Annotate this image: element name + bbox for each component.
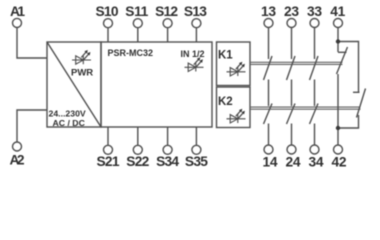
svg-text:S11: S11 (125, 4, 148, 19)
svg-text:IN 1/2: IN 1/2 (181, 49, 205, 59)
svg-text:42: 42 (332, 155, 347, 170)
svg-text:PSR-MC32: PSR-MC32 (108, 48, 154, 58)
svg-text:S34: S34 (156, 154, 179, 169)
svg-text:S35: S35 (185, 154, 208, 169)
svg-text:K1: K1 (218, 50, 233, 62)
svg-text:23: 23 (284, 4, 299, 19)
svg-text:13: 13 (261, 4, 276, 19)
svg-text:24: 24 (286, 155, 301, 170)
svg-text:41: 41 (330, 4, 345, 19)
svg-text:S10: S10 (96, 4, 119, 19)
svg-text:A2: A2 (10, 153, 25, 168)
svg-text:34: 34 (309, 155, 324, 170)
svg-text:K2: K2 (218, 96, 233, 108)
svg-text:14: 14 (263, 155, 278, 170)
svg-text:33: 33 (307, 4, 322, 19)
svg-text:PWR: PWR (71, 68, 93, 79)
svg-text:S13: S13 (184, 4, 207, 19)
svg-text:S22: S22 (126, 154, 149, 169)
svg-text:24...230V: 24...230V (49, 109, 86, 119)
svg-text:S21: S21 (97, 154, 120, 169)
svg-text:AC / DC: AC / DC (53, 118, 86, 128)
svg-text:A1: A1 (10, 4, 25, 19)
svg-text:S12: S12 (155, 4, 178, 19)
